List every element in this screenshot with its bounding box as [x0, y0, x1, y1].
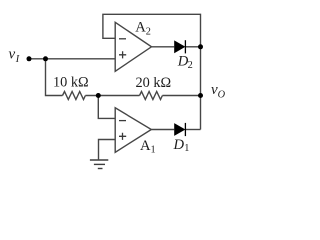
svg-text:2: 2 [146, 26, 151, 37]
wire junction down to 10k row [46, 59, 63, 96]
ground [90, 160, 108, 169]
wire A1 inverting input [98, 96, 115, 119]
A1 plus sign [119, 133, 126, 140]
node vI terminal [27, 56, 32, 61]
label vI [9, 46, 20, 65]
wire input vI to A2 plus [29, 58, 115, 60]
label D1 [173, 137, 190, 154]
node A1 inverting junction [96, 93, 101, 98]
A2 minus sign [119, 38, 126, 40]
A2 plus sign [119, 51, 126, 58]
label A1 [140, 138, 156, 155]
wire A2 feedback loop [103, 14, 201, 47]
wire A1 plus to ground [99, 140, 116, 160]
wire A1 output to D1 [151, 129, 174, 131]
svg-text:D: D [173, 137, 185, 153]
node D2 cathode [198, 44, 203, 49]
wire A2 output to D2 [152, 46, 175, 48]
svg-text:20 kΩ: 20 kΩ [136, 75, 172, 91]
op-amp A1 [115, 108, 151, 153]
wire 20k to vO node [162, 95, 200, 97]
svg-text:O: O [218, 89, 226, 100]
svg-text:I: I [15, 54, 20, 65]
node vO [198, 93, 203, 98]
wire D2 cathode to node [185, 46, 200, 48]
op-amp A2 [115, 22, 151, 71]
wire 10k to 20k [85, 95, 139, 97]
svg-text:1: 1 [151, 145, 156, 156]
resistor R1 10 kOhm [63, 92, 86, 100]
node junction vI [43, 56, 48, 61]
resistor R2 20 kOhm [140, 92, 163, 100]
diode D2 [174, 40, 185, 53]
A1 minus sign [119, 120, 126, 122]
svg-text:v: v [9, 46, 16, 62]
svg-text:2: 2 [188, 60, 193, 71]
svg-text:10 kΩ: 10 kΩ [53, 75, 89, 91]
label vO [211, 82, 226, 100]
label A2 [135, 20, 151, 38]
svg-text:A: A [140, 138, 151, 154]
wire D1 cathode to rail [185, 129, 200, 131]
label D2 [177, 53, 193, 71]
svg-text:1: 1 [184, 143, 189, 154]
diode D1 [174, 123, 185, 136]
svg-text:A: A [135, 20, 146, 36]
wire output rail [200, 47, 202, 130]
